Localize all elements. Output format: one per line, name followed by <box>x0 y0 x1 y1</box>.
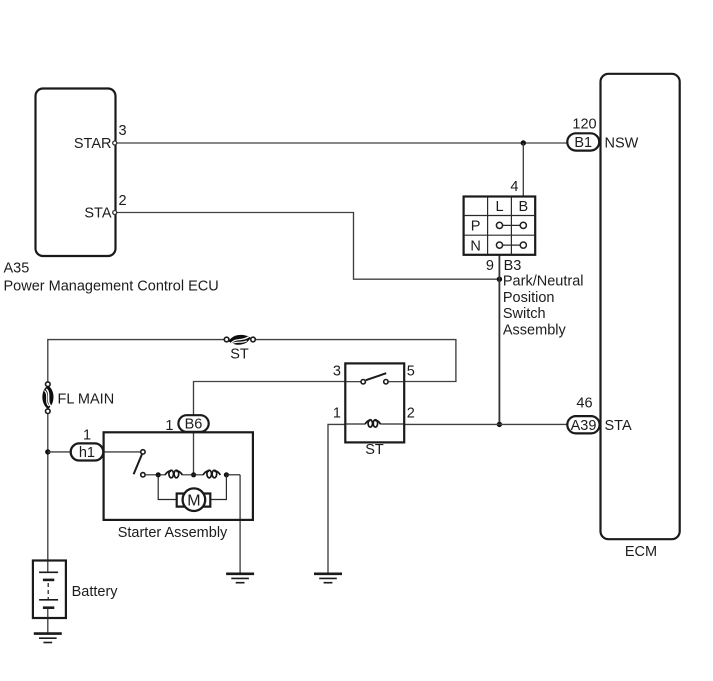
svg-text:B1: B1 <box>574 135 592 151</box>
wire relay pin3 to B6 <box>194 382 346 416</box>
svg-text:1: 1 <box>165 418 173 434</box>
wire battery feed top loop with ST fuse <box>48 340 225 382</box>
svg-text:STA: STA <box>84 205 111 221</box>
wire relay pin1 to ground <box>328 424 345 573</box>
svg-text:2: 2 <box>407 406 415 422</box>
svg-text:Assembly: Assembly <box>503 322 567 338</box>
svg-text:3: 3 <box>119 123 127 139</box>
starter assembly box <box>104 432 253 541</box>
svg-text:B: B <box>518 199 528 215</box>
svg-text:Power Management Control ECU: Power Management Control ECU <box>4 278 219 294</box>
connector A39 oval <box>567 416 599 433</box>
wire STA pin2 of A35 to PNP pin9 node <box>115 213 499 280</box>
svg-text:NSW: NSW <box>605 136 639 152</box>
pin 2 terminal circle <box>113 211 117 215</box>
node junction h1 branch <box>45 449 50 454</box>
svg-text:Starter Assembly: Starter Assembly <box>118 525 228 541</box>
svg-text:P: P <box>471 219 481 235</box>
svg-text:B3: B3 <box>504 258 522 274</box>
ground starter <box>226 574 254 583</box>
wire battery to ground <box>47 618 49 633</box>
svg-text:Position: Position <box>503 290 555 306</box>
svg-text:1: 1 <box>83 428 91 444</box>
svg-text:FL MAIN: FL MAIN <box>58 392 115 408</box>
svg-text:Switch: Switch <box>503 306 546 322</box>
ground relay ST <box>314 574 342 583</box>
coil <box>345 423 365 425</box>
wire relay pin2 to A39 <box>404 423 568 425</box>
svg-text:ST: ST <box>365 442 384 458</box>
svg-text:ST: ST <box>230 347 249 363</box>
wire to coil <box>145 474 165 476</box>
node junction on NSW line <box>521 140 526 145</box>
battery <box>33 561 118 619</box>
wire PNP pin9 down to STA line <box>498 255 500 425</box>
connector h1 oval <box>71 443 104 460</box>
svg-text:Park/Neutral: Park/Neutral <box>503 274 584 290</box>
wire B6 into starter coil <box>193 432 195 475</box>
coil 2 <box>203 470 220 478</box>
wire FL MAIN down to battery <box>47 413 49 560</box>
svg-text:2: 2 <box>119 193 127 209</box>
wire h1 to starter switch <box>103 451 141 453</box>
connector B6 oval <box>178 415 208 432</box>
svg-text:N: N <box>470 238 480 254</box>
svg-text:1: 1 <box>333 406 341 422</box>
svg-text:h1: h1 <box>79 445 95 461</box>
connector B1 oval <box>567 133 599 150</box>
ground battery <box>34 634 62 643</box>
fuse ST <box>224 335 255 363</box>
svg-text:ECM: ECM <box>625 544 657 560</box>
relay ST box <box>333 363 415 458</box>
svg-text:M: M <box>187 493 200 510</box>
svg-text:Battery: Battery <box>72 584 119 600</box>
pin 3 terminal circle <box>113 141 117 145</box>
wire junction down to PNP switch pin 4 <box>522 143 524 197</box>
svg-text:9: 9 <box>486 258 494 274</box>
wire STAR pin3 to B1 <box>115 142 568 144</box>
wire to h1 <box>48 451 71 453</box>
svg-text:46: 46 <box>576 395 592 411</box>
svg-text:5: 5 <box>407 363 415 379</box>
svg-text:B6: B6 <box>185 416 203 432</box>
motor M <box>158 475 176 500</box>
svg-text:A35: A35 <box>4 261 30 277</box>
svg-text:3: 3 <box>333 363 341 379</box>
svg-text:STAR: STAR <box>74 136 112 152</box>
op A35 Power Management Control ECU box <box>36 89 116 257</box>
wire starter to ground <box>239 475 241 574</box>
svg-text:A39: A39 <box>571 418 597 434</box>
node junction pin9 line <box>497 277 502 282</box>
switch contacts <box>361 380 365 384</box>
switch contacts <box>141 450 145 454</box>
node junction on STA line <box>497 422 502 427</box>
svg-text:4: 4 <box>510 179 518 195</box>
svg-text:STA: STA <box>605 418 632 434</box>
fuse FL MAIN fusible link <box>42 382 114 414</box>
switch B3 Park/Neutral Position Switch table <box>464 197 536 255</box>
wire ST fuse to relay pin 5 <box>255 340 456 382</box>
svg-text:120: 120 <box>572 117 596 133</box>
coil 1 <box>165 470 182 478</box>
svg-text:L: L <box>495 199 503 215</box>
ECM box <box>601 74 680 539</box>
